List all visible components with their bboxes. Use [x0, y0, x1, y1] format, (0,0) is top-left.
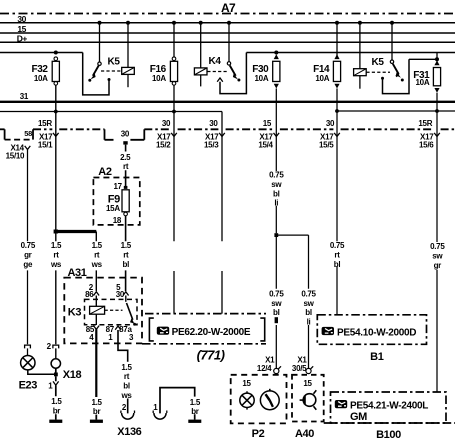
svg-text:30: 30	[209, 119, 218, 128]
icon book (PE54.10)	[322, 327, 334, 335]
wire K4 switch drop	[228, 23, 230, 62]
K3 control link (dashed)	[105, 309, 123, 311]
assembly A2 (dashed box)	[93, 178, 139, 225]
bus D+	[0, 41, 455, 43]
connector X18	[51, 359, 60, 368]
connector pin X17 15/2	[171, 133, 177, 137]
svg-text:ge: ge	[23, 260, 33, 269]
fuse F31	[433, 61, 440, 93]
assembly A31 (dashed box)	[64, 278, 142, 344]
gong symbol (A40)	[303, 394, 316, 407]
svg-text:0.75: 0.75	[269, 289, 284, 298]
node dots on bus 30	[98, 21, 395, 25]
svg-text:30: 30	[326, 119, 335, 128]
svg-text:(771): (771)	[197, 347, 225, 362]
wire F32 output continues to X18	[55, 232, 57, 359]
lamp (P2 illumination)	[246, 391, 248, 409]
wire F31 output (15R)	[436, 93, 438, 392]
wire X136 pin1 to ground (1.5 br)	[160, 388, 195, 420]
wire X14 15/10 to E23 (0.75 gr ge)	[27, 150, 29, 356]
fuse F14	[333, 54, 340, 88]
connector pin symbol (X18 pin 2 at boundary)	[53, 345, 59, 348]
bus 31 (thick ground bus)	[0, 101, 455, 103]
wire K4 hook	[220, 53, 246, 94]
lamp E23	[21, 356, 35, 370]
svg-text:0.75: 0.75	[301, 289, 316, 298]
connector pin X17 15/3	[219, 133, 225, 137]
svg-text:15R: 15R	[38, 119, 52, 128]
node junction on F30 output	[274, 233, 278, 237]
reference box PE62.20-W-2000E	[149, 318, 264, 341]
svg-text:X136: X136	[117, 426, 141, 438]
instrument cluster P2 (dashed box)	[231, 375, 287, 424]
node dot F31 wire on line B	[435, 109, 439, 113]
wire feed rail right	[246, 52, 455, 54]
svg-text:sw: sw	[432, 251, 443, 260]
svg-text:18: 18	[113, 216, 122, 225]
wire K4 coil drop	[200, 23, 202, 68]
svg-text:li: li	[274, 199, 278, 208]
svg-text:bl: bl	[273, 308, 280, 317]
wire distribution line A (left, 30)	[0, 111, 222, 113]
ground (K3 pin 4)	[95, 415, 97, 420]
svg-text:0.75: 0.75	[269, 171, 284, 180]
wire F16 output	[173, 85, 175, 313]
svg-text:K4: K4	[209, 56, 222, 67]
svg-text:15: 15	[242, 379, 251, 388]
K3 switch	[125, 296, 127, 302]
svg-text:58: 58	[24, 129, 32, 138]
svg-text:D+: D+	[17, 34, 28, 44]
svg-text:15/6: 15/6	[419, 141, 434, 150]
svg-text:rt: rt	[53, 251, 59, 260]
connector X1 12/4	[274, 368, 279, 373]
component boundary segment (bottom right)	[324, 422, 455, 424]
svg-text:2.5: 2.5	[120, 153, 131, 162]
svg-text:30/5: 30/5	[292, 364, 307, 373]
wire line A drop to X17 15/3	[221, 112, 223, 314]
ground (X136 pin 1)	[188, 420, 201, 423]
connector X1 30/5	[306, 368, 311, 373]
svg-text:15/4: 15/4	[258, 141, 273, 150]
relay K3 (inner dashed box)	[85, 299, 138, 324]
svg-text:30: 30	[17, 14, 26, 24]
fuse F9	[122, 190, 129, 212]
component boundary (middle module, top edge)	[145, 313, 266, 315]
pin 1 arrow (X18)	[53, 381, 59, 385]
wire K3 coil to pin 85/4	[95, 314, 97, 325]
bus 15	[0, 32, 455, 34]
wire F14 output	[336, 89, 338, 316]
svg-text:ws: ws	[91, 260, 103, 269]
component boundary A7 (dash-dot overhead line)	[0, 13, 455, 15]
fuse F32	[52, 57, 59, 85]
svg-text:10A: 10A	[34, 74, 48, 83]
svg-text:PE62.20-W-2000E: PE62.20-W-2000E	[172, 327, 251, 338]
svg-text:K5: K5	[108, 57, 121, 68]
connector X136 pin 1	[154, 413, 166, 419]
svg-text:A2: A2	[98, 166, 112, 178]
wire F9 output to K3 switch (1.5 rt bl)	[125, 216, 127, 291]
pin 17 pad	[124, 186, 128, 189]
wire K5 right hook	[383, 59, 410, 93]
node dot F32 tap on feed rail	[54, 51, 58, 55]
wire K5 right coil drop	[359, 23, 361, 69]
wire K5 left hook	[83, 53, 109, 95]
svg-text:sw: sw	[271, 299, 282, 308]
icon book (PE62.20)	[157, 327, 169, 335]
ground (X18 pin 1)	[49, 420, 62, 423]
connector X136 pin 2	[122, 413, 134, 419]
svg-text:0.75: 0.75	[330, 241, 345, 250]
node square at bar left end	[54, 230, 58, 234]
svg-text:1.5: 1.5	[121, 363, 132, 372]
svg-text:1.5: 1.5	[92, 241, 103, 250]
wire distribution line B (right, 30)	[337, 110, 455, 112]
svg-text:A40: A40	[295, 428, 314, 440]
svg-text:15/2: 15/2	[156, 141, 171, 150]
svg-text:15/1: 15/1	[38, 141, 53, 150]
connector pin X17 15/5	[334, 133, 340, 137]
connector pin symbol (E23 wire crosses boundary)	[25, 345, 31, 348]
svg-text:15: 15	[303, 379, 312, 388]
wire F30 output to P2	[275, 237, 277, 368]
svg-text:ws: ws	[120, 391, 132, 400]
svg-text:0.75: 0.75	[430, 242, 445, 251]
fuse F30	[273, 54, 280, 88]
svg-text:15/10: 15/10	[6, 151, 25, 160]
pin pad 30 (A2 feed terminal)	[123, 141, 127, 144]
svg-text:GM: GM	[350, 411, 367, 423]
svg-text:1.5: 1.5	[91, 398, 102, 407]
relay K4	[194, 62, 240, 87]
svg-text:B1: B1	[370, 351, 384, 363]
svg-text:31: 31	[20, 92, 29, 101]
node dot F30 tap on feed rail	[274, 51, 278, 55]
svg-text:bl: bl	[123, 260, 130, 269]
svg-text:br: br	[53, 407, 61, 416]
svg-text:15R: 15R	[418, 119, 432, 128]
svg-text:10A: 10A	[255, 74, 269, 83]
svg-text:F14: F14	[313, 64, 330, 75]
wire terminal 30 to A2 fuse F9 (2.5 rt)	[125, 145, 127, 186]
svg-text:1.5: 1.5	[51, 397, 62, 406]
svg-text:1.5: 1.5	[51, 241, 62, 250]
svg-text:rt: rt	[123, 162, 129, 171]
fuse F16	[170, 57, 177, 85]
wire K3 coil feed drop	[95, 232, 97, 292]
svg-text:B100: B100	[376, 429, 401, 441]
bus 30	[0, 22, 455, 24]
wire feed rail left (15R feed)	[0, 52, 83, 54]
pin pad on wire at boundary	[275, 317, 278, 323]
wire F31 feed drop	[436, 53, 438, 62]
svg-text:15/3: 15/3	[204, 141, 219, 150]
svg-text:gr: gr	[434, 261, 442, 270]
svg-text:10A: 10A	[416, 78, 430, 87]
wire branch to A40	[276, 235, 308, 368]
svg-text:gr: gr	[24, 251, 32, 260]
svg-text:li: li	[307, 318, 311, 327]
wire K5 left coil drop	[127, 23, 129, 68]
wire X18 junction to ground	[55, 368, 57, 419]
svg-text:K5: K5	[372, 57, 385, 68]
svg-text:bl: bl	[305, 308, 312, 317]
clock (P2)	[260, 391, 279, 410]
svg-text:15: 15	[263, 119, 272, 128]
node dot F14 on line B	[335, 109, 339, 113]
node dot F31 tap	[435, 57, 439, 61]
svg-text:sw: sw	[271, 180, 282, 189]
svg-text:bl: bl	[334, 260, 341, 269]
wire K5 left switch drop	[99, 23, 101, 62]
wire F32 output (15R)	[55, 85, 57, 231]
svg-text:86: 86	[85, 290, 94, 299]
svg-text:E23: E23	[19, 380, 38, 392]
connector pin X17 15/6	[434, 133, 440, 137]
node dot F16 on line A	[172, 110, 176, 114]
wire K5 right switch drop	[391, 23, 393, 60]
svg-text:15/5: 15/5	[319, 141, 334, 150]
icon book (B100)	[335, 400, 347, 408]
node dot F32 on line A	[54, 110, 58, 114]
K3 coil	[95, 296, 97, 307]
wire F30 output (15)	[275, 89, 277, 234]
svg-text:1.5: 1.5	[121, 241, 132, 250]
svg-text:10A: 10A	[152, 74, 166, 83]
svg-text:br: br	[191, 407, 199, 416]
component boundary X17 row (dash-dot)	[0, 129, 455, 140]
svg-text:P2: P2	[252, 428, 265, 440]
svg-text:PE54.10-W-2000D: PE54.10-W-2000D	[337, 328, 416, 339]
wire F16 feed drop	[173, 23, 175, 57]
svg-text:30: 30	[162, 119, 171, 128]
svg-text:F16: F16	[150, 64, 167, 75]
svg-text:K3: K3	[68, 306, 82, 318]
clock module A40 (dashed box)	[292, 375, 324, 422]
svg-text:bl: bl	[273, 189, 280, 198]
svg-text:0.75: 0.75	[21, 241, 36, 250]
svg-text:12/4: 12/4	[257, 364, 272, 373]
connector X14 15/10	[25, 146, 31, 150]
relay K5 (left)	[88, 62, 134, 87]
wire K3 pin4 to ground (1.5 br)	[95, 329, 97, 397]
svg-text:bl: bl	[123, 382, 130, 391]
wire E23 to X18 junction	[28, 370, 56, 374]
svg-text:10A: 10A	[315, 74, 329, 83]
component boundary (middle module, bottom edge)	[142, 343, 266, 345]
reference box PE54.10-W-2000D	[317, 315, 426, 345]
wire splice bar (F32 output to K3 coil feed)	[56, 230, 97, 233]
svg-text:17: 17	[113, 182, 122, 191]
svg-text:1.5: 1.5	[190, 398, 201, 407]
wire F14 feed drop	[336, 23, 338, 56]
svg-text:F30: F30	[252, 64, 269, 75]
svg-text:30: 30	[121, 130, 130, 139]
svg-text:rt: rt	[124, 372, 130, 381]
wire K3 pin 87 to X136 pin 2 (1.5 rt bl ws)	[118, 330, 128, 413]
svg-text:rt: rt	[123, 251, 129, 260]
wire F31 sub-feed segment	[409, 58, 437, 60]
node junction at X18	[54, 373, 58, 377]
reference box B100 PE54.21-W-2400L	[331, 392, 447, 423]
connector pin X17 15/4	[274, 133, 280, 137]
connector pin X17 15/1	[53, 133, 59, 137]
svg-text:15A: 15A	[106, 204, 120, 213]
svg-text:X18: X18	[63, 369, 82, 381]
svg-text:A7: A7	[221, 1, 236, 15]
svg-text:ws: ws	[50, 260, 62, 269]
relay K5 (right)	[354, 60, 404, 89]
svg-text:sw: sw	[303, 299, 314, 308]
svg-text:rt: rt	[94, 251, 100, 260]
svg-text:F32: F32	[32, 64, 49, 75]
svg-text:A31: A31	[68, 267, 87, 279]
svg-text:rt: rt	[334, 251, 340, 260]
